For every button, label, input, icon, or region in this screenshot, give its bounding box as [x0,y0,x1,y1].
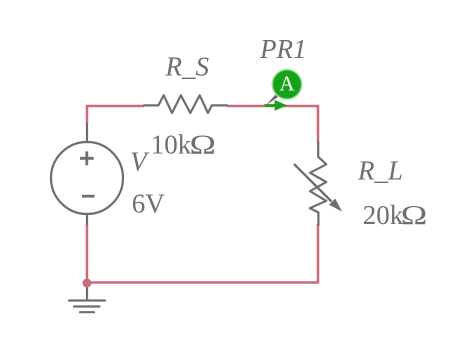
svg-text:Ω: Ω [401,200,428,230]
svg-text:A: A [279,72,295,96]
svg-text:10k: 10k [151,130,192,160]
svg-text:V: V [130,147,150,177]
svg-text:Ω: Ω [190,130,217,160]
svg-text:R_S: R_S [165,52,210,82]
svg-text:PR1: PR1 [259,34,307,64]
svg-text:6V: 6V [132,189,166,219]
svg-text:20k: 20k [363,200,404,230]
svg-text:R_L: R_L [357,156,403,186]
